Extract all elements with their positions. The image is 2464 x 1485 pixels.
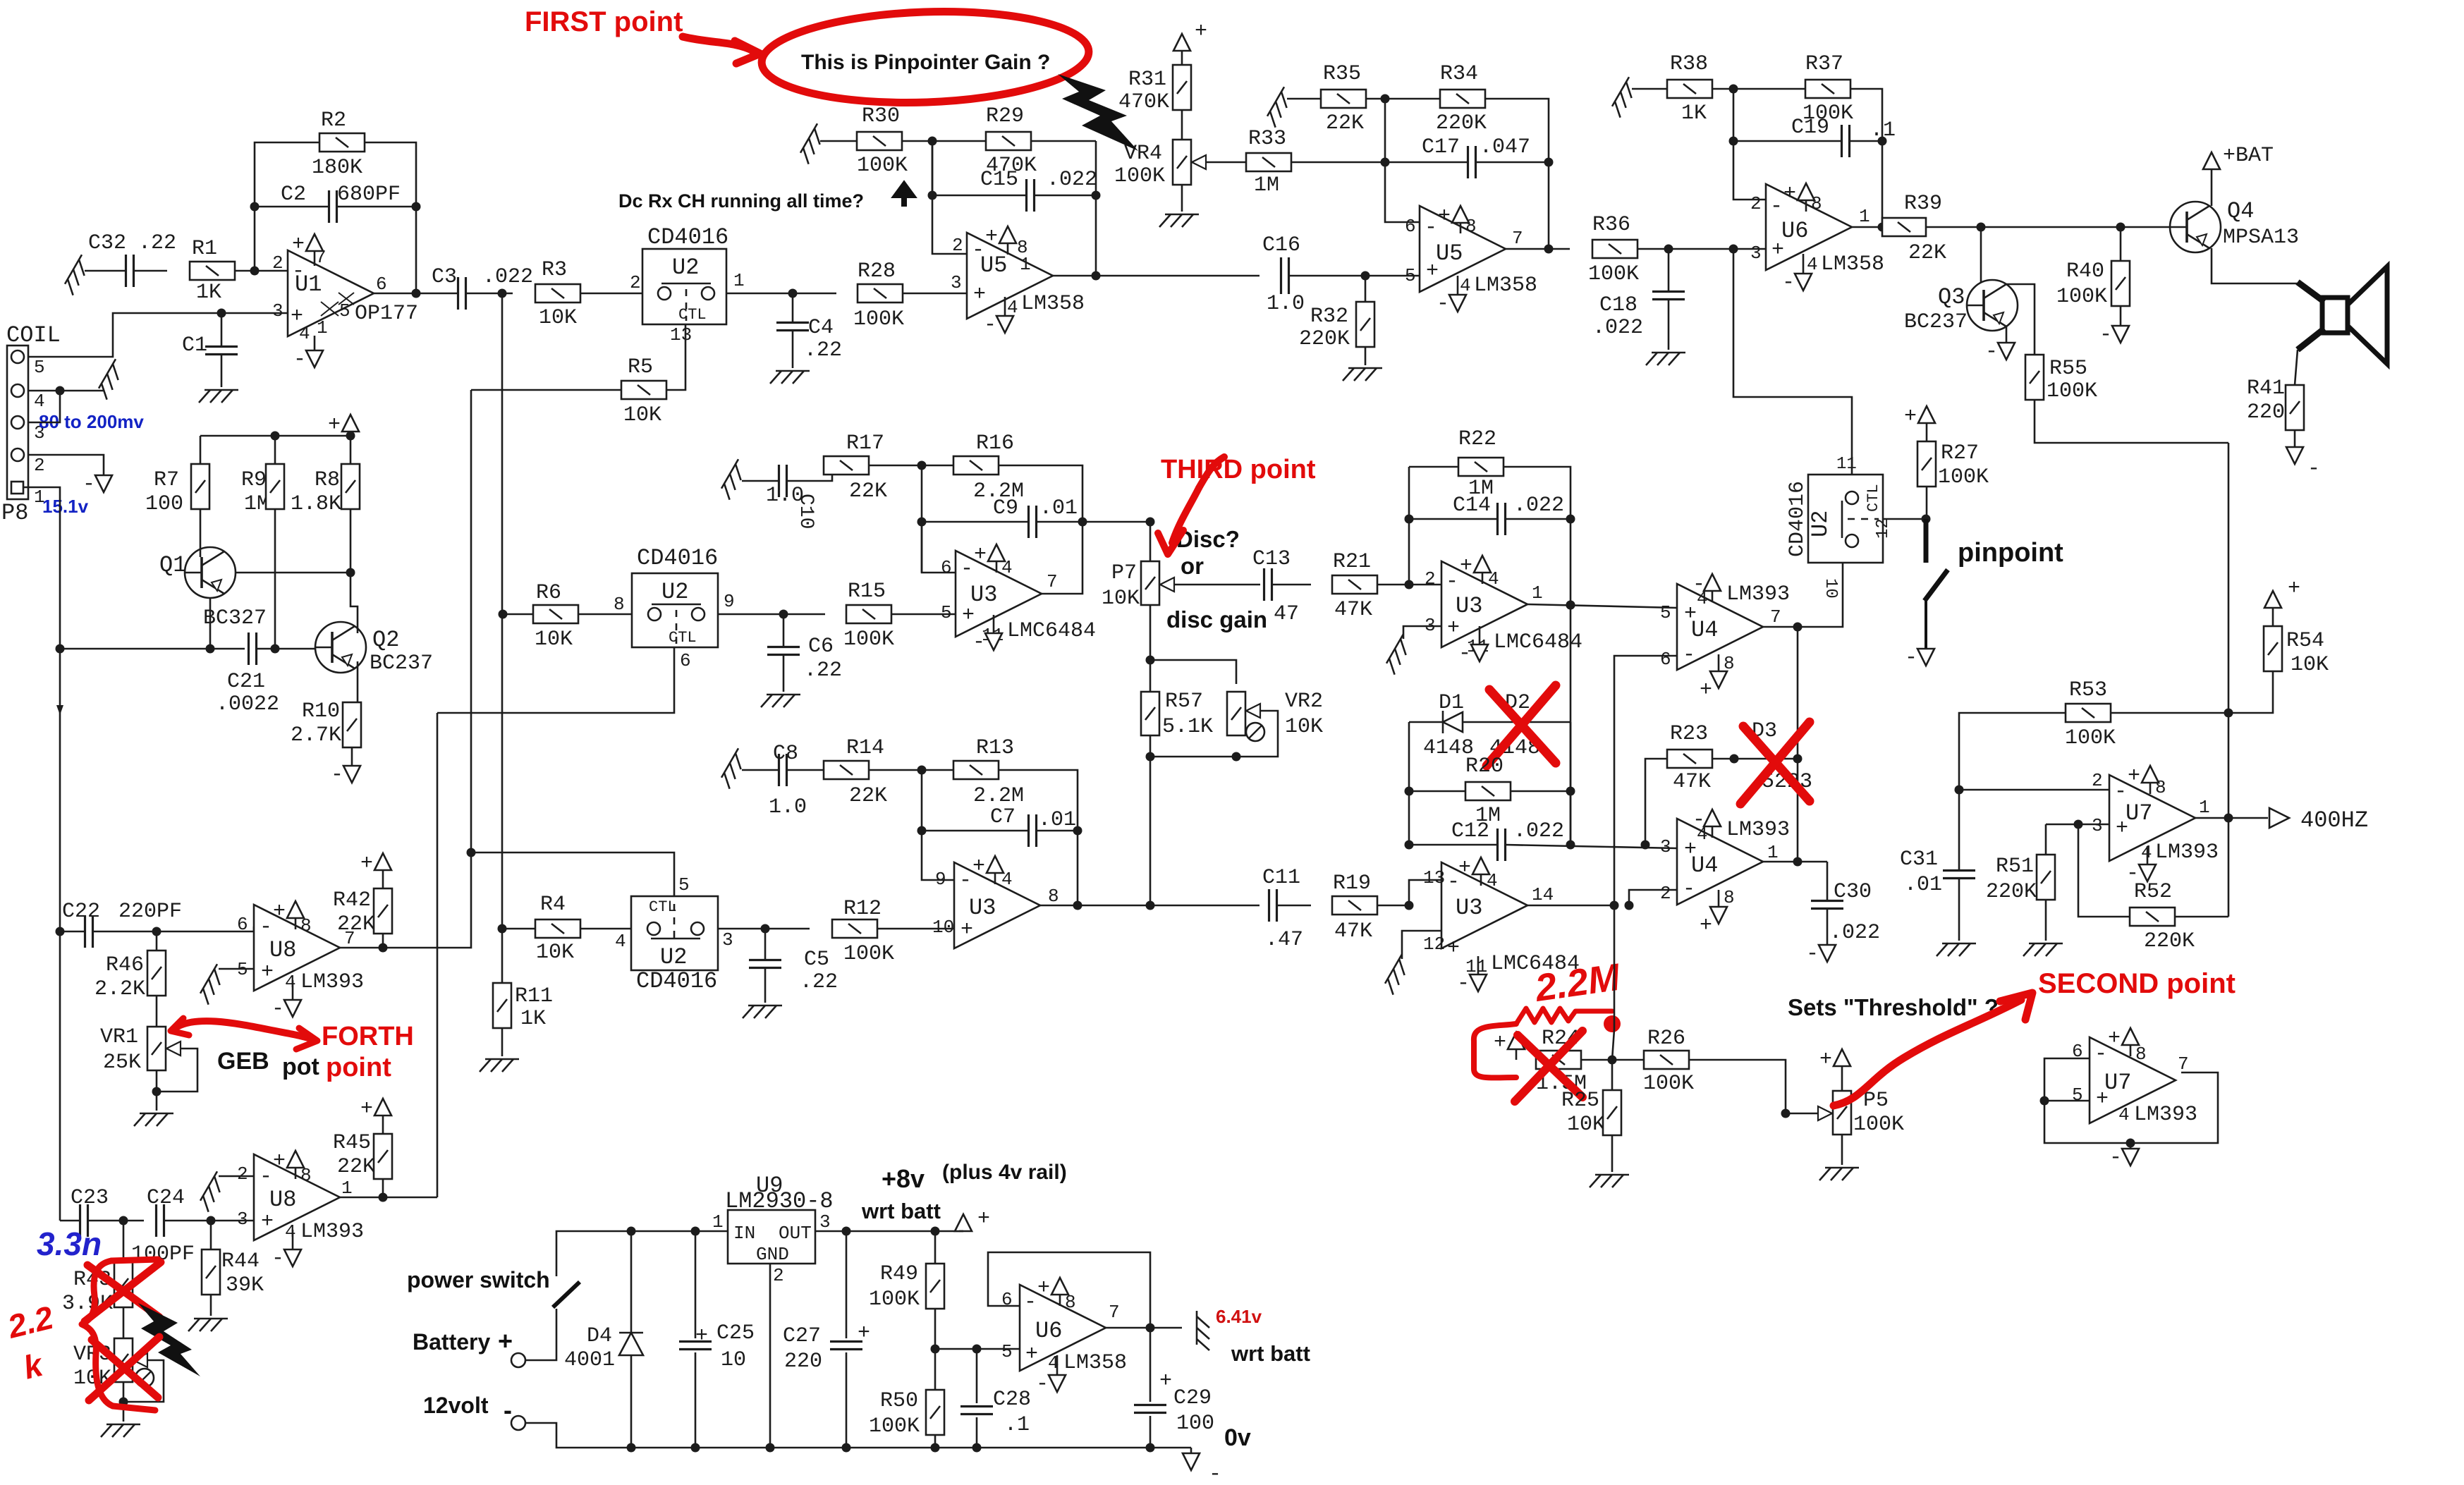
svg-text:+: + <box>973 283 986 307</box>
wire U3d output down to threshold node <box>1612 905 1614 1060</box>
svg-text:220K: 220K <box>1299 327 1350 351</box>
svg-text:R17: R17 <box>846 432 884 456</box>
ground under VR4 <box>1181 185 1183 212</box>
screw symbol VR2 <box>1246 723 1264 741</box>
svg-text:47K: 47K <box>1673 770 1711 794</box>
svg-text:U2: U2 <box>672 255 699 281</box>
svg-text:8: 8 <box>614 594 625 615</box>
wire U5b output <box>1506 248 1570 250</box>
svg-text:.022: .022 <box>1513 819 1564 843</box>
svg-text:1: 1 <box>712 1211 724 1233</box>
svg-text:+: + <box>1447 936 1460 960</box>
wire coil pin5 to U1 +input <box>28 313 288 357</box>
node R20 left <box>1405 787 1414 796</box>
svg-text:BC237: BC237 <box>1904 310 1968 334</box>
svg-text:400HZ: 400HZ <box>2300 807 2368 833</box>
svg-text:+: + <box>1037 1276 1050 1300</box>
node U3c -input <box>1405 580 1414 589</box>
svg-text:C25: C25 <box>716 1321 755 1345</box>
svg-text:+: + <box>695 1324 708 1348</box>
svg-text:-: - <box>2099 323 2112 347</box>
svg-text:LM358: LM358 <box>1063 1351 1127 1375</box>
power up U7b <box>2130 1045 2132 1056</box>
svg-text:9: 9 <box>724 591 735 612</box>
op-amp U5 LM358 A <box>967 233 1053 319</box>
node C19 left <box>1729 137 1738 146</box>
capacitor C4 .22 <box>792 293 794 322</box>
power +BAT <box>2211 169 2213 206</box>
svg-text:R4: R4 <box>540 893 566 917</box>
svg-text:OP177: OP177 <box>355 302 418 326</box>
svg-text:C5: C5 <box>804 948 829 972</box>
svg-text:8: 8 <box>2135 1044 2147 1065</box>
wire Q1 emitter down <box>209 598 212 649</box>
red ellipse This is Pinpointer Gain <box>760 6 1090 108</box>
op-amp U5 LM358 B <box>1420 206 1506 292</box>
svg-text:C10: C10 <box>795 494 817 529</box>
svg-text:R6: R6 <box>536 581 561 605</box>
ground under C6 <box>761 695 800 707</box>
svg-text:C19: C19 <box>1791 116 1829 140</box>
svg-text:100K: 100K <box>869 1414 920 1438</box>
svg-text:Battery: Battery <box>413 1329 490 1355</box>
node C18 <box>1664 245 1673 254</box>
wire U4b -input <box>1629 890 1677 905</box>
svg-text:U2: U2 <box>661 579 688 605</box>
wire C5 stem <box>764 967 767 1003</box>
svg-text:R37: R37 <box>1805 52 1843 76</box>
svg-text:.022: .022 <box>482 265 533 289</box>
svg-text:LM393: LM393 <box>1726 582 1790 606</box>
wire Q3 collector to R55 <box>2006 284 2035 355</box>
red X over D2 <box>1489 690 1556 763</box>
svg-text:13: 13 <box>670 324 692 346</box>
svg-text:10K: 10K <box>2291 653 2329 677</box>
svg-text:10: 10 <box>932 917 954 938</box>
svg-text:VR1: VR1 <box>100 1025 138 1049</box>
svg-text:2: 2 <box>237 1163 248 1185</box>
red arrow THIRD point <box>1199 457 1224 488</box>
svg-text:C12: C12 <box>1451 819 1489 843</box>
pinpoint switch <box>1924 519 1929 563</box>
svg-text:C7: C7 <box>990 805 1016 829</box>
svg-text:R11: R11 <box>515 984 553 1008</box>
wire coil pin4 to ground <box>28 390 104 392</box>
svg-text:disc gain: disc gain <box>1166 606 1267 632</box>
svg-text:.022: .022 <box>1829 921 1880 945</box>
power down U4b plus <box>1718 890 1720 907</box>
power down U8b <box>292 1230 294 1249</box>
transistor Q4 MPSA13 <box>2170 202 2221 252</box>
svg-text:10: 10 <box>721 1348 746 1372</box>
svg-text:6: 6 <box>376 274 387 295</box>
wire U3d +input ground <box>1402 931 1441 959</box>
svg-text:.22: .22 <box>804 338 842 362</box>
op-amp U6 LM358 B <box>1020 1285 1106 1371</box>
svg-text:U4: U4 <box>1691 617 1718 643</box>
svg-text:.22: .22 <box>138 231 176 255</box>
node C24/R44 <box>207 1216 216 1226</box>
svg-text:+: + <box>328 413 341 437</box>
svg-text:2: 2 <box>272 252 283 274</box>
ground under Q3 <box>2006 326 2008 343</box>
svg-text:U2: U2 <box>660 944 687 970</box>
svg-text:LM393: LM393 <box>300 1220 364 1244</box>
svg-text:220: 220 <box>784 1350 822 1374</box>
svg-text:-: - <box>1446 570 1458 594</box>
svg-text:U6: U6 <box>1781 218 1808 244</box>
op-amp U1 OP177 <box>288 250 374 336</box>
svg-text:R35: R35 <box>1323 62 1361 86</box>
svg-text:6: 6 <box>941 557 952 578</box>
power up R27 <box>1926 423 1928 441</box>
node D3 <box>1793 754 1803 764</box>
svg-text:12: 12 <box>1423 934 1445 955</box>
svg-text:C13: C13 <box>1252 547 1291 571</box>
svg-text:-: - <box>1693 573 1705 597</box>
top rail R7 R9 R8 <box>200 435 350 437</box>
wire U2D CTL to R27 <box>1883 518 1926 520</box>
svg-text:7: 7 <box>2178 1053 2189 1075</box>
svg-text:+: + <box>360 852 373 876</box>
wire Q4 emitter to speaker <box>2212 248 2298 283</box>
svg-text:R22: R22 <box>1458 427 1496 451</box>
svg-text:-: - <box>1782 271 1795 295</box>
svg-text:-: - <box>260 1165 272 1189</box>
node R49/R50 <box>931 1345 940 1354</box>
svg-text:+: + <box>974 543 987 567</box>
wire P7 bottom to R57 <box>1149 605 1152 692</box>
svg-text:8: 8 <box>1048 886 1059 907</box>
bottom bias bus <box>60 648 245 650</box>
svg-text:R44: R44 <box>221 1249 260 1273</box>
svg-text:.22: .22 <box>804 659 842 683</box>
svg-text:Q2: Q2 <box>372 627 399 653</box>
wire U2A out <box>726 293 836 295</box>
wire battery minus to 0v rail <box>525 1423 1191 1448</box>
ground under C5 <box>743 1006 782 1018</box>
svg-text:+: + <box>1025 1343 1038 1367</box>
svg-text:pot: pot <box>282 1053 319 1080</box>
svg-text:4: 4 <box>1007 297 1018 318</box>
svg-text:3: 3 <box>722 929 733 951</box>
op-amp U7 LM393 A <box>2109 775 2195 861</box>
svg-text:1: 1 <box>317 317 328 338</box>
power down U5b <box>1457 276 1459 295</box>
svg-text:LM393: LM393 <box>2134 1103 2197 1127</box>
svg-text:U8: U8 <box>269 1187 296 1213</box>
svg-text:BC327: BC327 <box>203 606 267 630</box>
svg-text:Q4: Q4 <box>2227 198 2254 224</box>
wire U3a output up to feedback <box>1042 522 1082 594</box>
wire bus to U2C CTL <box>467 848 476 857</box>
red arrow SECOND point <box>1834 1000 2021 1106</box>
node U1 -input <box>250 267 260 276</box>
svg-text:R46: R46 <box>106 953 144 977</box>
svg-text:LM358: LM358 <box>1474 274 1537 298</box>
svg-text:or: or <box>1181 553 1204 579</box>
svg-text:10K: 10K <box>536 941 574 965</box>
svg-text:U3: U3 <box>970 582 997 608</box>
svg-text:R7: R7 <box>154 468 179 492</box>
svg-text:pinpoint: pinpoint <box>1958 538 2063 568</box>
svg-text:2: 2 <box>630 272 641 293</box>
svg-text:LM358: LM358 <box>1821 252 1884 276</box>
svg-text:4: 4 <box>1460 275 1471 296</box>
power down U3a <box>993 615 995 633</box>
svg-text:-: - <box>1683 877 1695 901</box>
svg-text:4001: 4001 <box>564 1348 615 1372</box>
transistor Q2 BC237 <box>315 622 366 673</box>
svg-text:+: + <box>1700 678 1712 702</box>
op-amp U4 LM393 B <box>1677 819 1763 905</box>
red X over R43 <box>87 1265 159 1317</box>
ground R35 left <box>1264 87 1295 127</box>
node U7b ground <box>2126 1139 2135 1148</box>
power up U7a <box>2149 783 2152 794</box>
svg-text:Q1: Q1 <box>159 552 186 578</box>
wire U8b output to GEB bus <box>340 1197 437 1199</box>
svg-text:.022: .022 <box>1592 316 1643 340</box>
power up U4b minus <box>1712 826 1714 838</box>
svg-text:R10: R10 <box>302 699 340 723</box>
svg-text:Dc Rx CH running all time?: Dc Rx CH running all time? <box>618 190 864 212</box>
svg-text:CD4016: CD4016 <box>647 224 728 250</box>
svg-text:-: - <box>1437 292 1449 316</box>
wire bus from C3 node down to R4 row <box>501 293 504 929</box>
svg-text:P7: P7 <box>1111 561 1137 585</box>
svg-text:R32: R32 <box>1310 305 1348 329</box>
wire GEB bus top <box>437 647 674 713</box>
power up R54 <box>2272 608 2274 626</box>
svg-text:10K: 10K <box>623 403 661 427</box>
wire bus R5 row <box>470 390 472 853</box>
svg-text:C3: C3 <box>432 265 457 289</box>
svg-text:47K: 47K <box>1334 598 1372 622</box>
wire U2B out <box>718 613 825 616</box>
svg-text:-: - <box>1209 1462 1221 1485</box>
ground C10 left <box>719 459 750 499</box>
power down U5a <box>1004 297 1006 316</box>
svg-text:U2: U2 <box>1807 511 1834 537</box>
svg-text:1: 1 <box>2199 797 2210 818</box>
svg-text:10K: 10K <box>1285 715 1323 739</box>
svg-text:+: + <box>1700 914 1712 938</box>
svg-text:R2: R2 <box>321 109 346 133</box>
power down U3d <box>1477 956 1480 974</box>
svg-text:+: + <box>273 900 286 924</box>
wire U4a output <box>1763 627 1798 862</box>
svg-text:+: + <box>261 1210 274 1234</box>
ground under C31 <box>1937 943 1976 956</box>
svg-text:22K: 22K <box>849 784 887 808</box>
svg-text:point: point <box>326 1053 391 1082</box>
svg-text:6: 6 <box>1660 649 1671 670</box>
svg-text:1: 1 <box>1532 582 1543 604</box>
ground under C18 <box>1646 353 1685 365</box>
svg-text:C15: C15 <box>980 168 1018 192</box>
svg-text:100: 100 <box>1176 1412 1214 1436</box>
svg-text:4: 4 <box>285 1221 296 1242</box>
speaker <box>2322 298 2348 333</box>
svg-text:10K: 10K <box>535 628 573 652</box>
svg-text:R49: R49 <box>880 1262 918 1286</box>
op-amp U7 LM393 B <box>2090 1037 2176 1123</box>
svg-text:R54: R54 <box>2286 629 2324 653</box>
svg-text:+: + <box>972 855 985 879</box>
svg-text:-: - <box>2307 457 2320 481</box>
wire U7a +input <box>2046 824 2109 826</box>
node C15 left <box>928 191 937 200</box>
svg-text:5: 5 <box>34 357 45 378</box>
power up bias rail <box>350 432 352 436</box>
svg-text:U7: U7 <box>2104 1070 2131 1096</box>
op-amp U6 LM358 A <box>1766 184 1852 270</box>
node C12 right <box>1566 841 1575 850</box>
node C2 right <box>412 202 421 212</box>
svg-text:-: - <box>2094 1042 2107 1066</box>
svg-text:COIL: COIL <box>6 322 61 348</box>
svg-text:2: 2 <box>1750 193 1762 214</box>
svg-text:LM358: LM358 <box>1021 292 1085 316</box>
transistor Q3 BC237 <box>1980 227 1982 305</box>
power down U6b <box>1056 1355 1059 1375</box>
svg-text:R20: R20 <box>1465 754 1504 778</box>
analog switch U2 CD4016 C <box>631 896 718 970</box>
ground R38 left <box>1609 77 1640 117</box>
power switch symbol <box>525 1309 556 1360</box>
svg-text:C32: C32 <box>88 231 126 255</box>
resistor R27 100K <box>1917 441 1936 487</box>
node R33/C17 <box>1381 158 1390 167</box>
svg-text:U7: U7 <box>2125 800 2152 826</box>
svg-text:1: 1 <box>1767 842 1779 863</box>
svg-text:1M: 1M <box>1254 173 1279 197</box>
svg-text:4: 4 <box>34 391 45 412</box>
svg-text:-: - <box>272 1247 284 1271</box>
svg-text:3: 3 <box>272 300 283 322</box>
svg-text:CD4016: CD4016 <box>1786 481 1810 557</box>
svg-text:U5: U5 <box>980 252 1007 279</box>
svg-text:R3: R3 <box>542 258 567 282</box>
power up R24 row <box>1515 1049 1518 1060</box>
svg-text:.01: .01 <box>1038 808 1076 832</box>
ground C8 left <box>719 748 750 788</box>
svg-text:.0022: .0022 <box>216 692 279 716</box>
svg-text:CTL: CTL <box>649 898 677 916</box>
svg-text:.47: .47 <box>1265 928 1303 952</box>
svg-text:3: 3 <box>819 1211 831 1233</box>
wire bus GEB control <box>437 713 439 1197</box>
power down U7a <box>2147 846 2149 864</box>
svg-text:-: - <box>1985 340 1998 364</box>
red arrow to ellipse <box>683 37 753 51</box>
wire U2D pin10 to U4a out <box>1798 563 1843 627</box>
wire U6a +input down to U2D <box>1733 249 1852 477</box>
svg-text:12volt: 12volt <box>423 1393 489 1418</box>
svg-text:4: 4 <box>615 931 626 952</box>
power up U3c <box>1482 573 1484 584</box>
svg-text:22K: 22K <box>1908 241 1946 265</box>
svg-text:1: 1 <box>341 1178 353 1199</box>
svg-text:R45: R45 <box>333 1131 371 1155</box>
svg-text:BC237: BC237 <box>370 652 433 676</box>
svg-text:R52: R52 <box>2134 880 2172 904</box>
wire U2C out <box>718 928 810 930</box>
svg-text:MPSA13: MPSA13 <box>2223 226 2299 250</box>
svg-text:U3: U3 <box>969 895 996 921</box>
node R14/R13 <box>917 766 927 775</box>
svg-text:R39: R39 <box>1904 192 1942 216</box>
ground under C4 <box>770 371 810 384</box>
svg-text:7: 7 <box>1512 228 1523 249</box>
svg-text:+: + <box>1195 20 1207 44</box>
svg-text:.022: .022 <box>1047 168 1097 192</box>
svg-text:R36: R36 <box>1592 213 1630 237</box>
svg-text:+: + <box>1159 1369 1172 1393</box>
wire U6b feedback box <box>988 1252 1150 1328</box>
wire U4a -input <box>1614 656 1677 905</box>
svg-text:-: - <box>272 997 284 1021</box>
node C1 junction <box>217 309 226 318</box>
power up U6b <box>1059 1295 1061 1306</box>
svg-text:10: 10 <box>1821 578 1840 599</box>
svg-text:R14: R14 <box>846 736 884 760</box>
svg-text:6: 6 <box>680 650 691 671</box>
svg-text:+: + <box>1447 616 1460 640</box>
svg-text:R23: R23 <box>1670 722 1708 746</box>
svg-text:+: + <box>1458 856 1471 880</box>
ground R30 left <box>798 123 829 164</box>
svg-text:R19: R19 <box>1333 872 1371 896</box>
svg-text:1K: 1K <box>196 281 221 305</box>
svg-text:+: + <box>1438 204 1451 228</box>
svg-text:4: 4 <box>285 972 296 993</box>
svg-text:THIRD point: THIRD point <box>1161 455 1316 484</box>
svg-text:wrt batt: wrt batt <box>861 1199 941 1223</box>
svg-text:220K: 220K <box>1986 880 2037 904</box>
ground under R44 <box>188 1319 228 1331</box>
svg-text:U5: U5 <box>1436 240 1463 267</box>
svg-text:Sets "Threshold" ?: Sets "Threshold" ? <box>1788 994 1999 1020</box>
ground arrow coil pin2 <box>103 471 105 475</box>
svg-text:220PF: 220PF <box>118 900 182 924</box>
node R20 right <box>1566 787 1575 796</box>
svg-text:R38: R38 <box>1670 52 1708 76</box>
power down R40 <box>2120 325 2122 327</box>
svg-text:0v: 0v <box>1224 1424 1251 1451</box>
svg-text:100K: 100K <box>1938 465 1989 489</box>
svg-text:U3: U3 <box>1456 593 1482 619</box>
lightning bolt annotation 2 <box>138 1303 200 1376</box>
svg-text:FORTH: FORTH <box>322 1022 414 1051</box>
svg-text:2: 2 <box>34 455 45 476</box>
svg-text:R26: R26 <box>1647 1027 1685 1051</box>
ground under P5 <box>1841 1135 1843 1165</box>
svg-text:11: 11 <box>1836 455 1857 474</box>
svg-text:7: 7 <box>1047 571 1058 592</box>
ground U8a +input <box>219 968 254 970</box>
svg-text:5: 5 <box>1001 1341 1013 1362</box>
power up U8a <box>295 918 297 929</box>
wire coil pin2 to ground arrow <box>28 455 104 471</box>
svg-text:SECOND point: SECOND point <box>2038 968 2236 999</box>
svg-text:-: - <box>972 630 985 654</box>
svg-text:C9: C9 <box>993 496 1018 520</box>
power down U3c <box>1479 626 1481 644</box>
svg-text:CTL: CTL <box>678 306 707 324</box>
wire D1 row corners <box>1408 722 1410 845</box>
